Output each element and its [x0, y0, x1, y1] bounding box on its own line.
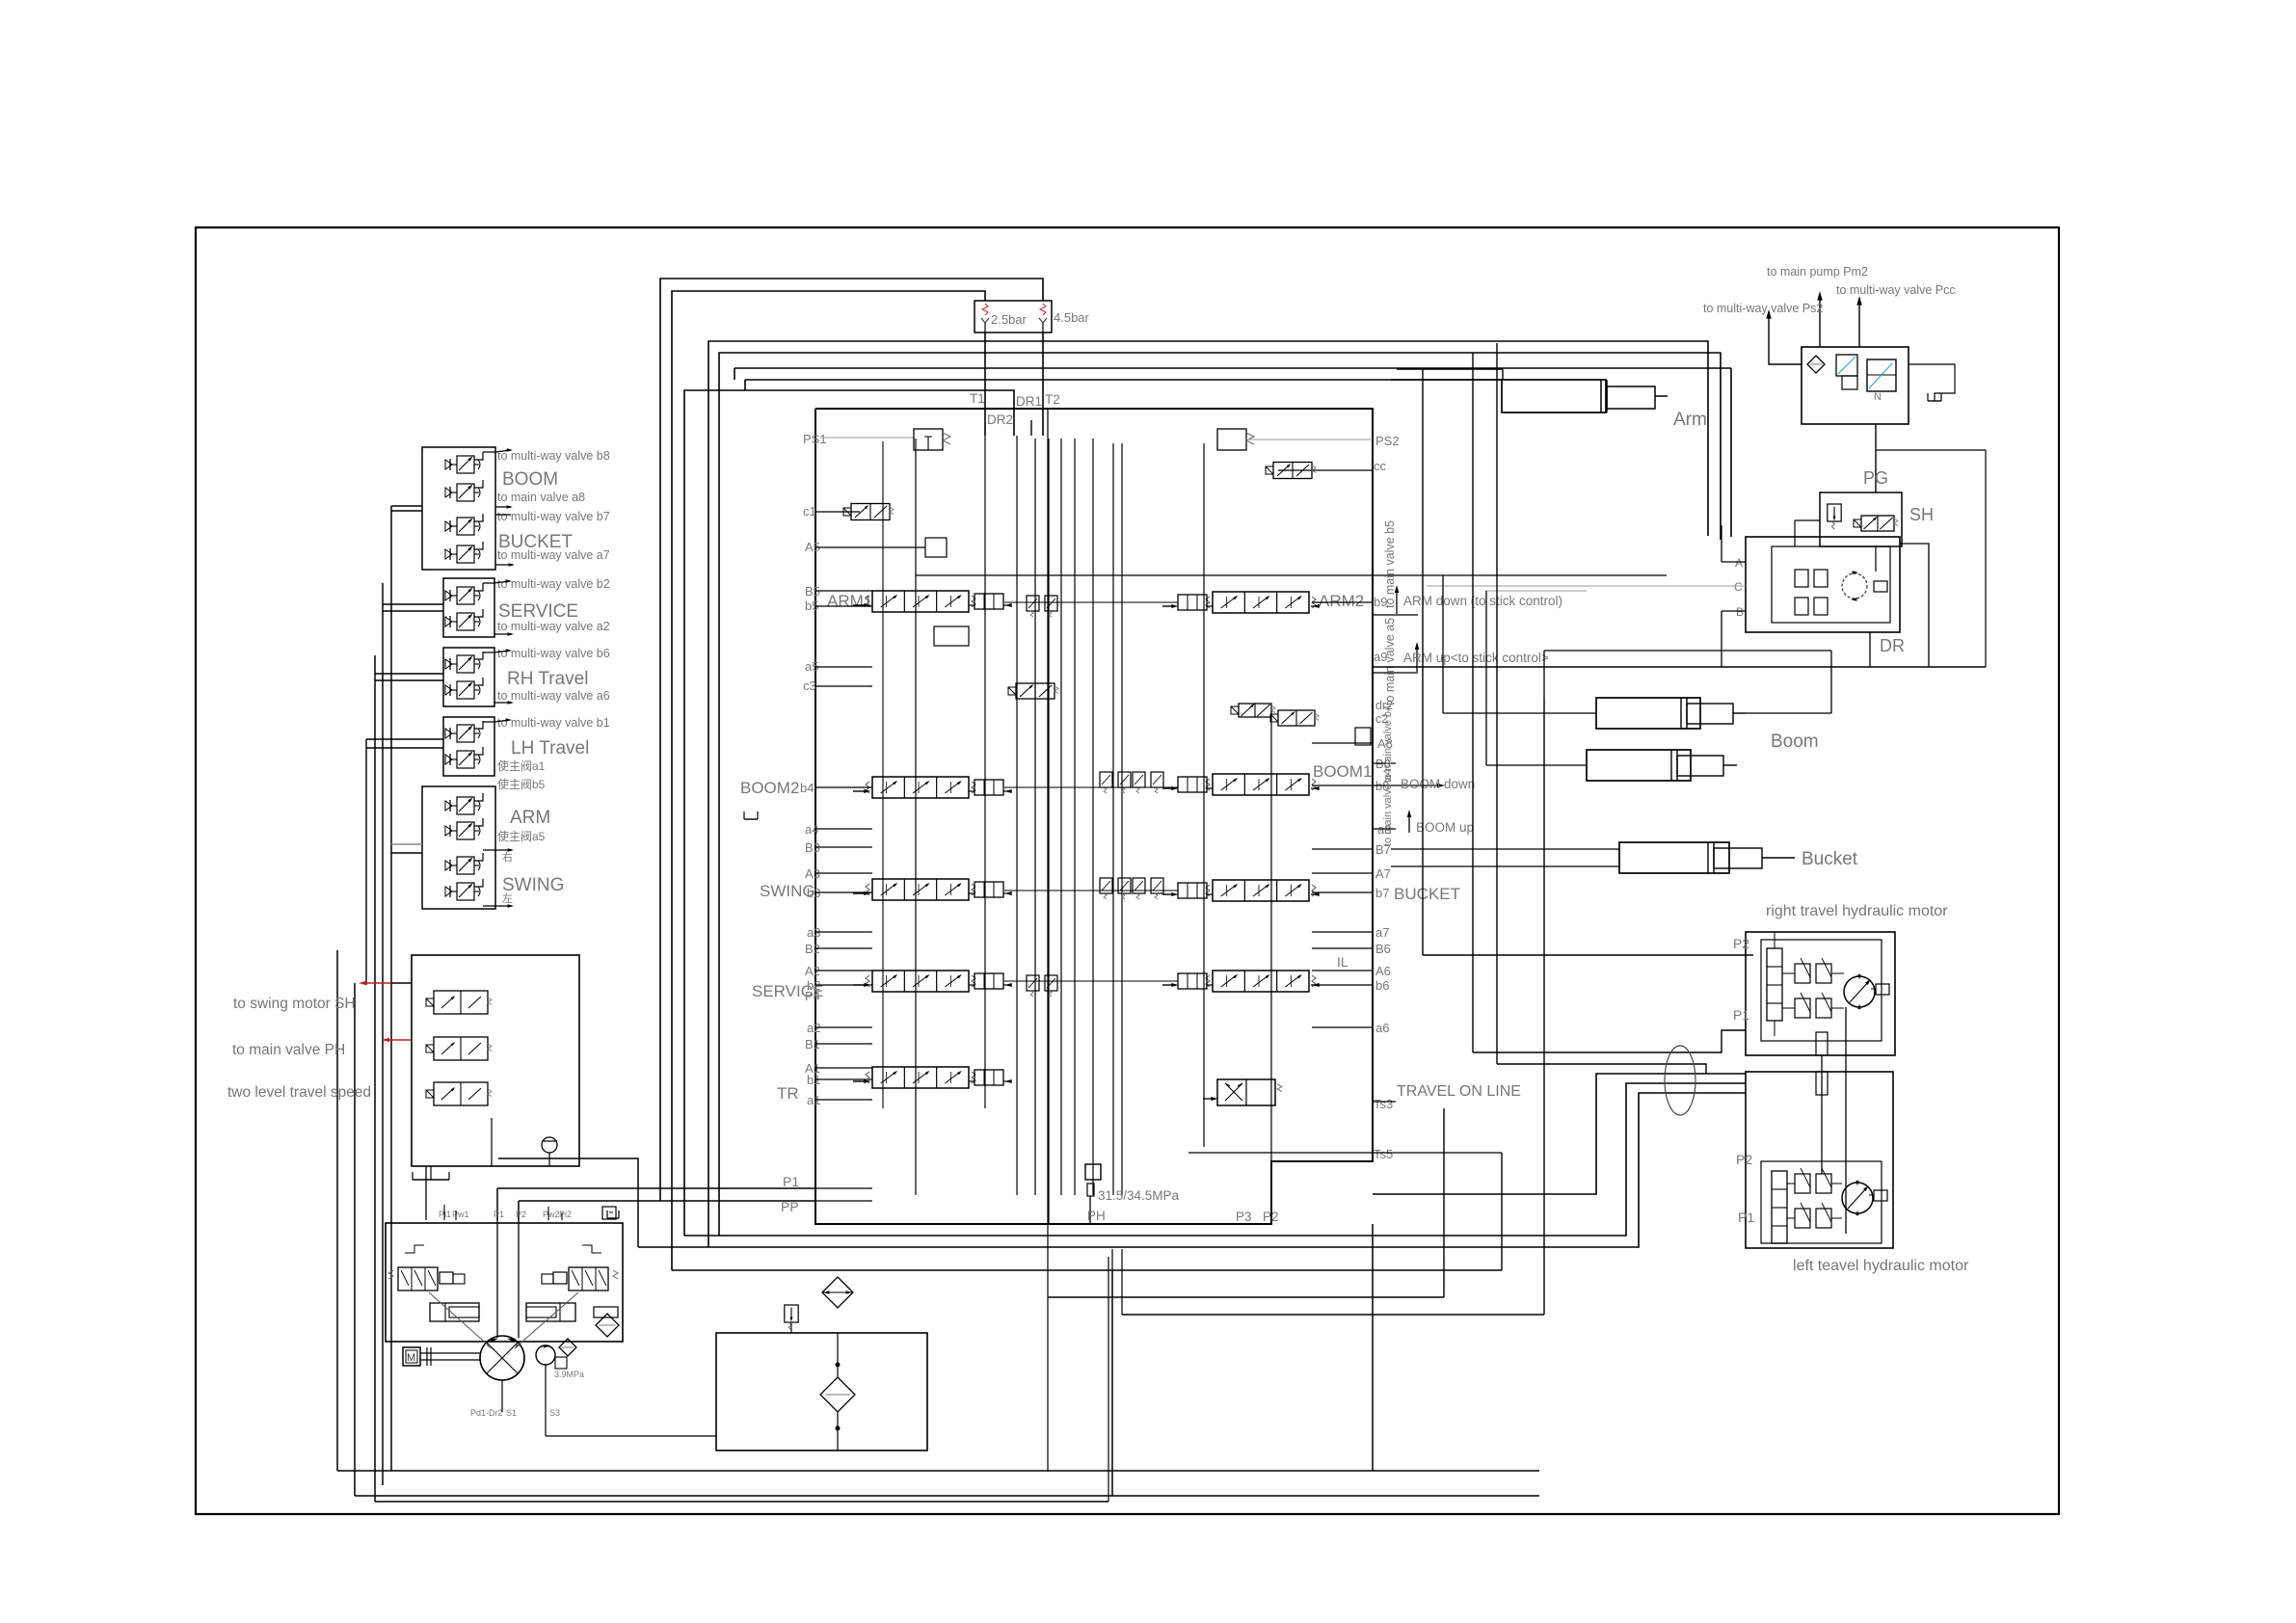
svg-text:b4: b4: [800, 781, 814, 795]
svg-text:to multi-way valve b6: to multi-way valve b6: [497, 647, 610, 660]
svg-text:IL: IL: [1337, 954, 1348, 970]
svg-text:to multi-way valve a7: to multi-way valve a7: [497, 548, 610, 562]
svg-text:31.5/34.5MPa: 31.5/34.5MPa: [1098, 1188, 1180, 1203]
svg-text:ARM: ARM: [510, 808, 550, 828]
svg-text:N: N: [1874, 391, 1882, 403]
svg-text:P1: P1: [1738, 1210, 1754, 1225]
svg-text:to multi-way valve b2: to multi-way valve b2: [497, 577, 610, 591]
svg-text:Pi2: Pi2: [559, 1210, 572, 1219]
svg-text:to main valve a4: to main valve a4: [1382, 769, 1394, 846]
svg-text:BOOM1: BOOM1: [1313, 762, 1372, 781]
svg-text:P3: P3: [1236, 1210, 1252, 1224]
svg-text:3.9MPa: 3.9MPa: [554, 1370, 584, 1379]
svg-text:two level travel speed: two level travel speed: [227, 1084, 371, 1101]
svg-text:DR2: DR2: [987, 412, 1013, 427]
svg-text:A: A: [1735, 556, 1743, 570]
svg-text:P1: P1: [1733, 1007, 1749, 1023]
svg-text:a6: a6: [1375, 1021, 1389, 1035]
svg-text:TRAVEL ON LINE: TRAVEL ON LINE: [1397, 1083, 1521, 1100]
svg-text:LH Travel: LH Travel: [511, 738, 589, 758]
svg-text:B6: B6: [1375, 942, 1391, 956]
svg-text:Boom: Boom: [1771, 732, 1819, 752]
svg-text:P2: P2: [1736, 1152, 1752, 1167]
svg-text:P2: P2: [516, 1210, 526, 1219]
svg-text:使主阀a1: 使主阀a1: [497, 758, 546, 773]
svg-text:A6: A6: [1375, 964, 1391, 978]
svg-text:to main valve PH: to main valve PH: [232, 1042, 345, 1058]
svg-text:to main valve b5: to main valve b5: [1383, 520, 1397, 608]
svg-text:BOOM down: BOOM down: [1401, 777, 1475, 791]
svg-text:TR: TR: [777, 1084, 799, 1103]
svg-text:a7: a7: [1375, 925, 1389, 940]
svg-text:2.5bar: 2.5bar: [991, 312, 1028, 327]
svg-text:PG: PG: [1863, 468, 1888, 488]
svg-text:to main valve a8: to main valve a8: [497, 491, 585, 504]
svg-text:S3: S3: [549, 1408, 560, 1418]
svg-text:to multi-way valve b1: to multi-way valve b1: [497, 716, 610, 730]
svg-text:to multi-way valve a6: to multi-way valve a6: [497, 689, 610, 703]
svg-text:to main valve a5: to main valve a5: [1383, 618, 1397, 705]
svg-text:c1: c1: [803, 504, 816, 519]
svg-text:A7: A7: [1375, 866, 1391, 881]
svg-text:b7: b7: [1375, 886, 1389, 900]
svg-text:使主阀b5: 使主阀b5: [497, 777, 546, 791]
svg-text:Pw1: Pw1: [452, 1210, 469, 1219]
svg-text:SWING: SWING: [502, 875, 564, 895]
svg-text:to multi-way valve a2: to multi-way valve a2: [497, 620, 610, 633]
svg-text:P2: P2: [1263, 1210, 1279, 1224]
svg-text:P1: P1: [494, 1210, 504, 1219]
svg-text:B: B: [1736, 605, 1744, 619]
svg-text:to main pump Pm2: to main pump Pm2: [1767, 265, 1868, 279]
svg-text:PS1: PS1: [803, 432, 827, 446]
svg-text:4.5bar: 4.5bar: [1054, 310, 1090, 325]
svg-text:左: 左: [502, 892, 513, 905]
svg-text:ARM down (to stick control): ARM down (to stick control): [1403, 594, 1562, 608]
svg-text:M: M: [407, 1352, 415, 1364]
svg-text:P1: P1: [783, 1174, 799, 1189]
svg-text:to swing motor SH: to swing motor SH: [233, 996, 356, 1012]
svg-text:右: 右: [502, 850, 513, 864]
svg-text:PS2: PS2: [1375, 434, 1400, 448]
svg-text:DR: DR: [1880, 636, 1905, 655]
svg-text:to multi-way valve b8: to multi-way valve b8: [497, 449, 610, 463]
svg-text:SERVICE: SERVICE: [498, 601, 578, 622]
svg-text:to multi-way valve Ps2: to multi-way valve Ps2: [1703, 302, 1823, 315]
svg-text:T2: T2: [1045, 392, 1060, 407]
svg-text:Ts3: Ts3: [1374, 1097, 1393, 1111]
svg-text:to multi-way valve Pcc: to multi-way valve Pcc: [1836, 283, 1956, 297]
svg-text:BUCKET: BUCKET: [1394, 885, 1460, 903]
svg-text:to multi-way valve b7: to multi-way valve b7: [497, 510, 610, 523]
svg-text:B7: B7: [1375, 842, 1391, 857]
svg-text:right travel hydraulic motor: right travel hydraulic motor: [1766, 903, 1948, 919]
svg-text:PH: PH: [1087, 1209, 1106, 1223]
svg-text:RH Travel: RH Travel: [507, 669, 588, 689]
svg-text:BOOM: BOOM: [502, 469, 558, 490]
svg-text:ARM up<to stick control>: ARM up<to stick control>: [1403, 651, 1549, 665]
svg-text:P2: P2: [1733, 936, 1749, 951]
svg-text:BOOM2: BOOM2: [740, 779, 799, 797]
svg-text:Ts5: Ts5: [1374, 1147, 1393, 1161]
svg-text:Bucket: Bucket: [1802, 849, 1858, 869]
svg-text:DR1: DR1: [1016, 394, 1042, 409]
svg-text:C: C: [1734, 580, 1743, 594]
svg-text:c3: c3: [803, 678, 816, 693]
svg-text:PP: PP: [781, 1199, 799, 1214]
svg-text:BOOM up: BOOM up: [1416, 820, 1474, 835]
svg-text:Pd1-Dr2: Pd1-Dr2: [470, 1408, 503, 1418]
svg-text:ARM2: ARM2: [1319, 592, 1364, 610]
svg-text:Pw2: Pw2: [543, 1210, 560, 1219]
svg-text:使主阀a5: 使主阀a5: [497, 829, 546, 843]
svg-text:Arm: Arm: [1673, 410, 1707, 430]
svg-text:S1: S1: [506, 1408, 517, 1418]
svg-text:left teavel hydraulic motor: left teavel hydraulic motor: [1793, 1258, 1969, 1274]
svg-text:SH: SH: [1909, 505, 1934, 524]
svg-text:cc: cc: [1374, 459, 1387, 473]
svg-text:T1: T1: [970, 391, 985, 406]
svg-text:b6: b6: [1375, 978, 1389, 993]
svg-text:ARM1: ARM1: [827, 592, 872, 610]
svg-text:P4: P4: [805, 989, 820, 1003]
